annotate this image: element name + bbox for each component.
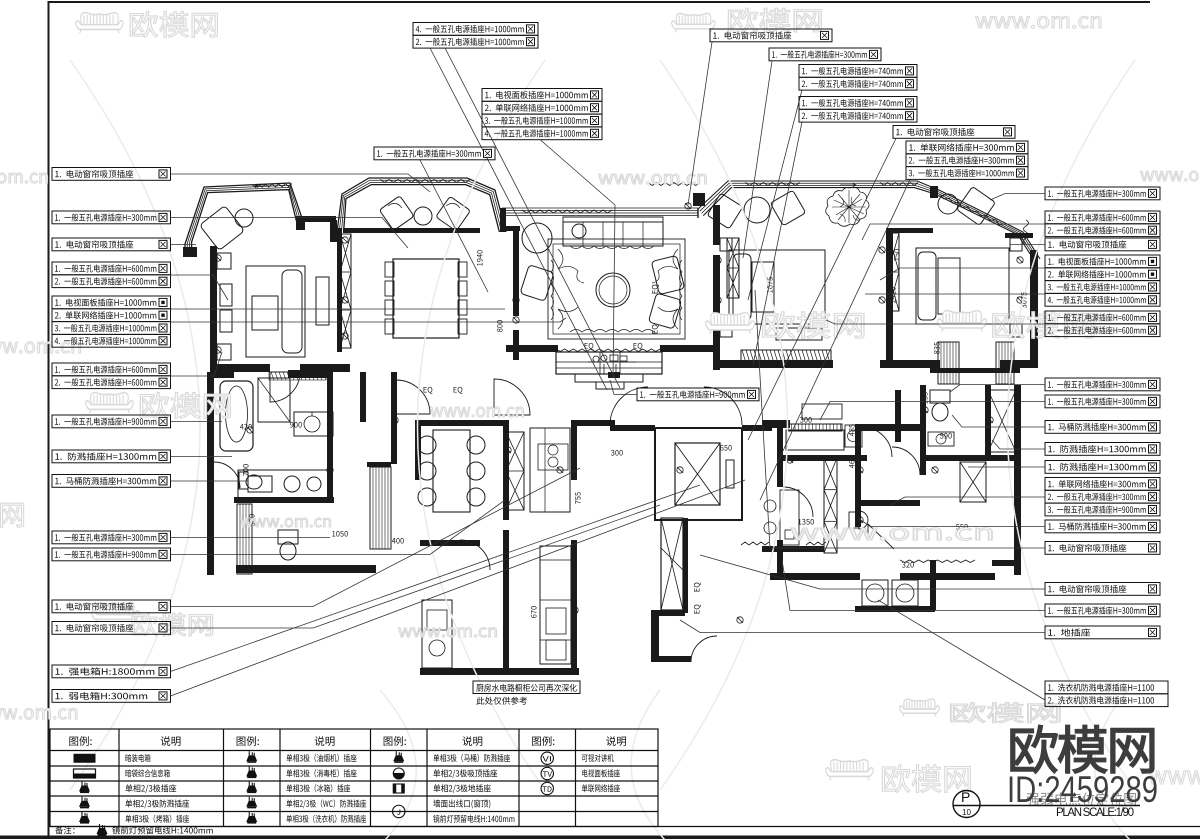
closet strips dressing corridor bbox=[370, 467, 391, 549]
callout R10 bbox=[1045, 461, 1160, 474]
legend note row bbox=[55, 826, 74, 834]
walls mid-level left unit bbox=[207, 370, 397, 575]
callout L14 bbox=[52, 665, 171, 678]
callout R16 bbox=[1045, 626, 1160, 639]
curtain coil right bay bbox=[1024, 220, 1029, 244]
callout R2 bbox=[1045, 211, 1160, 237]
wire leader bbox=[990, 194, 1045, 201]
svg-text:ID:2459289: ID:2459289 bbox=[1007, 769, 1158, 810]
callout T2 bbox=[482, 89, 602, 140]
callout R3 bbox=[1045, 238, 1160, 251]
callout T9 bbox=[906, 141, 1028, 179]
wire leader bbox=[171, 318, 567, 322]
callout L5 bbox=[52, 296, 171, 347]
wire leader bbox=[858, 518, 1045, 527]
callout T8 bbox=[893, 126, 1015, 139]
living room top wall windows bbox=[502, 207, 698, 209]
closet strip family room left bbox=[727, 238, 739, 298]
wire leader bbox=[688, 42, 712, 205]
wire leader bbox=[748, 90, 802, 300]
callout M1 bbox=[637, 388, 759, 401]
vanity left bath bbox=[238, 470, 330, 498]
wire leader bbox=[171, 480, 249, 482]
armchair dining bay bbox=[379, 196, 414, 231]
wire leader bbox=[171, 218, 409, 249]
pantry column right unit bbox=[824, 458, 837, 553]
wire leader bbox=[952, 415, 1045, 427]
callout L6 bbox=[52, 363, 171, 389]
door sill hatch bedroom1 bbox=[269, 372, 326, 380]
radiator hatch family room bbox=[741, 350, 831, 363]
right unit walls bbox=[762, 368, 1021, 580]
tv cabinet bedroom1 bbox=[316, 277, 329, 325]
dining table bbox=[393, 259, 459, 338]
callout L11 bbox=[52, 548, 171, 561]
wire leader bbox=[865, 293, 1045, 295]
watermark row7 bbox=[0, 708, 77, 719]
wire leader bbox=[878, 600, 1045, 700]
wire leader bbox=[171, 308, 506, 310]
wire leader bbox=[171, 352, 223, 376]
callout L10 bbox=[52, 531, 171, 544]
callout R6 bbox=[1045, 378, 1160, 391]
callout R7 bbox=[1045, 395, 1160, 408]
right unit bath fixtures hatch bbox=[988, 390, 1016, 452]
WC room below bbox=[278, 530, 298, 544]
kitchen block center-bottom bbox=[415, 420, 615, 675]
watermark row6 sofa+logo bbox=[92, 603, 140, 624]
callout R14 bbox=[1045, 583, 1160, 596]
right unit island bbox=[786, 430, 844, 450]
wire leader bbox=[540, 140, 615, 379]
site logo big bbox=[1011, 725, 1154, 773]
legend table bbox=[50, 729, 1200, 827]
watermark row3 center sofa+logo bbox=[706, 313, 755, 334]
symbol P circle bbox=[953, 791, 980, 818]
wire leader bbox=[171, 456, 233, 458]
callout L15 bbox=[52, 690, 171, 703]
wire leader bbox=[748, 139, 896, 441]
corridor closet hatch bbox=[661, 518, 683, 610]
wc right unit mid bbox=[849, 512, 859, 528]
wire leader bbox=[753, 122, 802, 365]
callout R8 bbox=[1045, 421, 1160, 434]
wall left bedroom bbox=[183, 186, 1038, 372]
bed right bedroom bbox=[916, 248, 1009, 324]
door arcs bbox=[214, 372, 920, 570]
wire leader bbox=[171, 485, 701, 672]
wire leader bbox=[1010, 244, 1045, 246]
family room bay chairs bbox=[707, 193, 743, 229]
callout L4 bbox=[52, 262, 171, 288]
hatch strip left bath lower bbox=[237, 504, 252, 574]
right bath fixtures bbox=[930, 390, 950, 403]
wire leader bbox=[171, 500, 506, 555]
callout R1 bbox=[1045, 187, 1160, 200]
terrace below living room bbox=[556, 352, 662, 374]
wire leader bbox=[171, 468, 581, 607]
console outside family room bbox=[802, 404, 842, 419]
callout T7 bbox=[799, 97, 917, 123]
wire leader bbox=[950, 385, 1045, 393]
basin right unit mid bbox=[845, 425, 862, 447]
washing machines bbox=[862, 580, 888, 606]
bed left bedroom bbox=[217, 253, 305, 360]
bay window dining bbox=[337, 178, 506, 232]
outlet symbols bbox=[215, 203, 1023, 623]
callout L12 bbox=[52, 600, 171, 613]
callout L1 bbox=[52, 168, 171, 181]
wire leader bbox=[171, 275, 229, 300]
callout L9 bbox=[52, 475, 171, 488]
floor plan bbox=[183, 178, 1040, 675]
watermark row5 bbox=[0, 501, 24, 527]
callout T5 bbox=[769, 48, 881, 61]
watermark sofa+logo top-center bbox=[672, 13, 716, 32]
wardrobes right bedroom lower bbox=[938, 342, 959, 384]
wire leader bbox=[890, 497, 1045, 505]
wire leader bbox=[680, 620, 1045, 633]
dimension labels bbox=[477, 250, 483, 266]
callout L13 bbox=[52, 622, 171, 635]
svg-text:P: P bbox=[961, 789, 970, 805]
svg-text:10: 10 bbox=[962, 808, 971, 817]
wire leader bbox=[880, 268, 1045, 280]
closet kitchen top bbox=[506, 432, 524, 510]
wire leader bbox=[445, 48, 620, 388]
watermark om.cn left row2 bbox=[0, 173, 48, 183]
callout L3 bbox=[52, 238, 171, 251]
wire leader bbox=[992, 440, 1045, 449]
wire leader bbox=[968, 466, 1045, 468]
callout R12 bbox=[1045, 520, 1160, 533]
wire leader bbox=[420, 160, 488, 292]
dining bay sill wall bbox=[343, 228, 480, 233]
armchair dining bay 2 bbox=[436, 196, 471, 231]
wire leader bbox=[862, 224, 1045, 240]
wire leader bbox=[171, 244, 197, 246]
callout T4 bbox=[710, 29, 832, 42]
callout R11 bbox=[1045, 478, 1160, 516]
tub bbox=[220, 381, 253, 451]
note kitchen deepen box bbox=[473, 681, 580, 694]
wire leader bbox=[755, 290, 1045, 548]
bay window left bedroom bbox=[185, 183, 303, 256]
bed family room bbox=[729, 250, 825, 324]
watermark sofa+logo top-left bbox=[76, 13, 124, 34]
callout R13 bbox=[1045, 542, 1160, 555]
wire leader bbox=[782, 560, 1045, 611]
watermark row4 left sofa+logo bbox=[86, 393, 134, 414]
window zigzags right unit bbox=[741, 542, 769, 545]
toilet left bath bbox=[239, 472, 248, 489]
wire leader bbox=[820, 402, 1045, 421]
kitchen counters bbox=[530, 428, 570, 512]
closet strip bedroom1/dining divider bbox=[340, 234, 351, 348]
callout R9 bbox=[1045, 443, 1160, 456]
callout R4 bbox=[1045, 255, 1160, 306]
wire leader bbox=[171, 421, 223, 423]
armchair right bedroom bay bbox=[957, 187, 996, 226]
armchair left bedroom bay bbox=[200, 206, 245, 251]
callout L2 bbox=[52, 211, 171, 224]
wire leader bbox=[743, 61, 772, 258]
shower left bath bbox=[258, 378, 290, 422]
callout R15 bbox=[1045, 604, 1160, 617]
watermark www.om.cn top-right bbox=[976, 16, 1101, 28]
wire leader bbox=[826, 320, 1045, 324]
window hatch marks bbox=[252, 184, 292, 188]
wire leader bbox=[171, 480, 746, 696]
wire leader bbox=[610, 380, 637, 395]
wire leader bbox=[760, 180, 910, 501]
wire leader bbox=[430, 48, 607, 390]
watermark bottom sofa+logo bbox=[826, 760, 874, 781]
wire leader bbox=[171, 174, 431, 192]
wire leader bbox=[171, 505, 661, 628]
kitchen nook table bbox=[433, 430, 470, 512]
callout R17 bbox=[1045, 681, 1168, 707]
title text plan name bbox=[1027, 792, 1136, 806]
callout T1 bbox=[413, 23, 538, 49]
bay window center top and right angled bbox=[698, 181, 1040, 259]
laundry room walls bbox=[855, 560, 936, 612]
wire leader bbox=[700, 555, 1045, 589]
wall bottom band upper rooms bbox=[506, 345, 1038, 368]
callout R5 bbox=[1045, 311, 1160, 337]
living room rug and sofa bbox=[548, 239, 685, 339]
callout T3 bbox=[374, 147, 495, 160]
wardrobe bedroom2 strip bbox=[888, 233, 899, 311]
callout T6 bbox=[799, 65, 917, 91]
callout L7 bbox=[52, 415, 171, 428]
vanity upper left bath bbox=[294, 412, 333, 436]
elevator shaft bbox=[655, 428, 742, 520]
wire leader bbox=[171, 537, 331, 539]
plant family bay bbox=[826, 187, 869, 226]
callout L8 bbox=[52, 450, 171, 463]
